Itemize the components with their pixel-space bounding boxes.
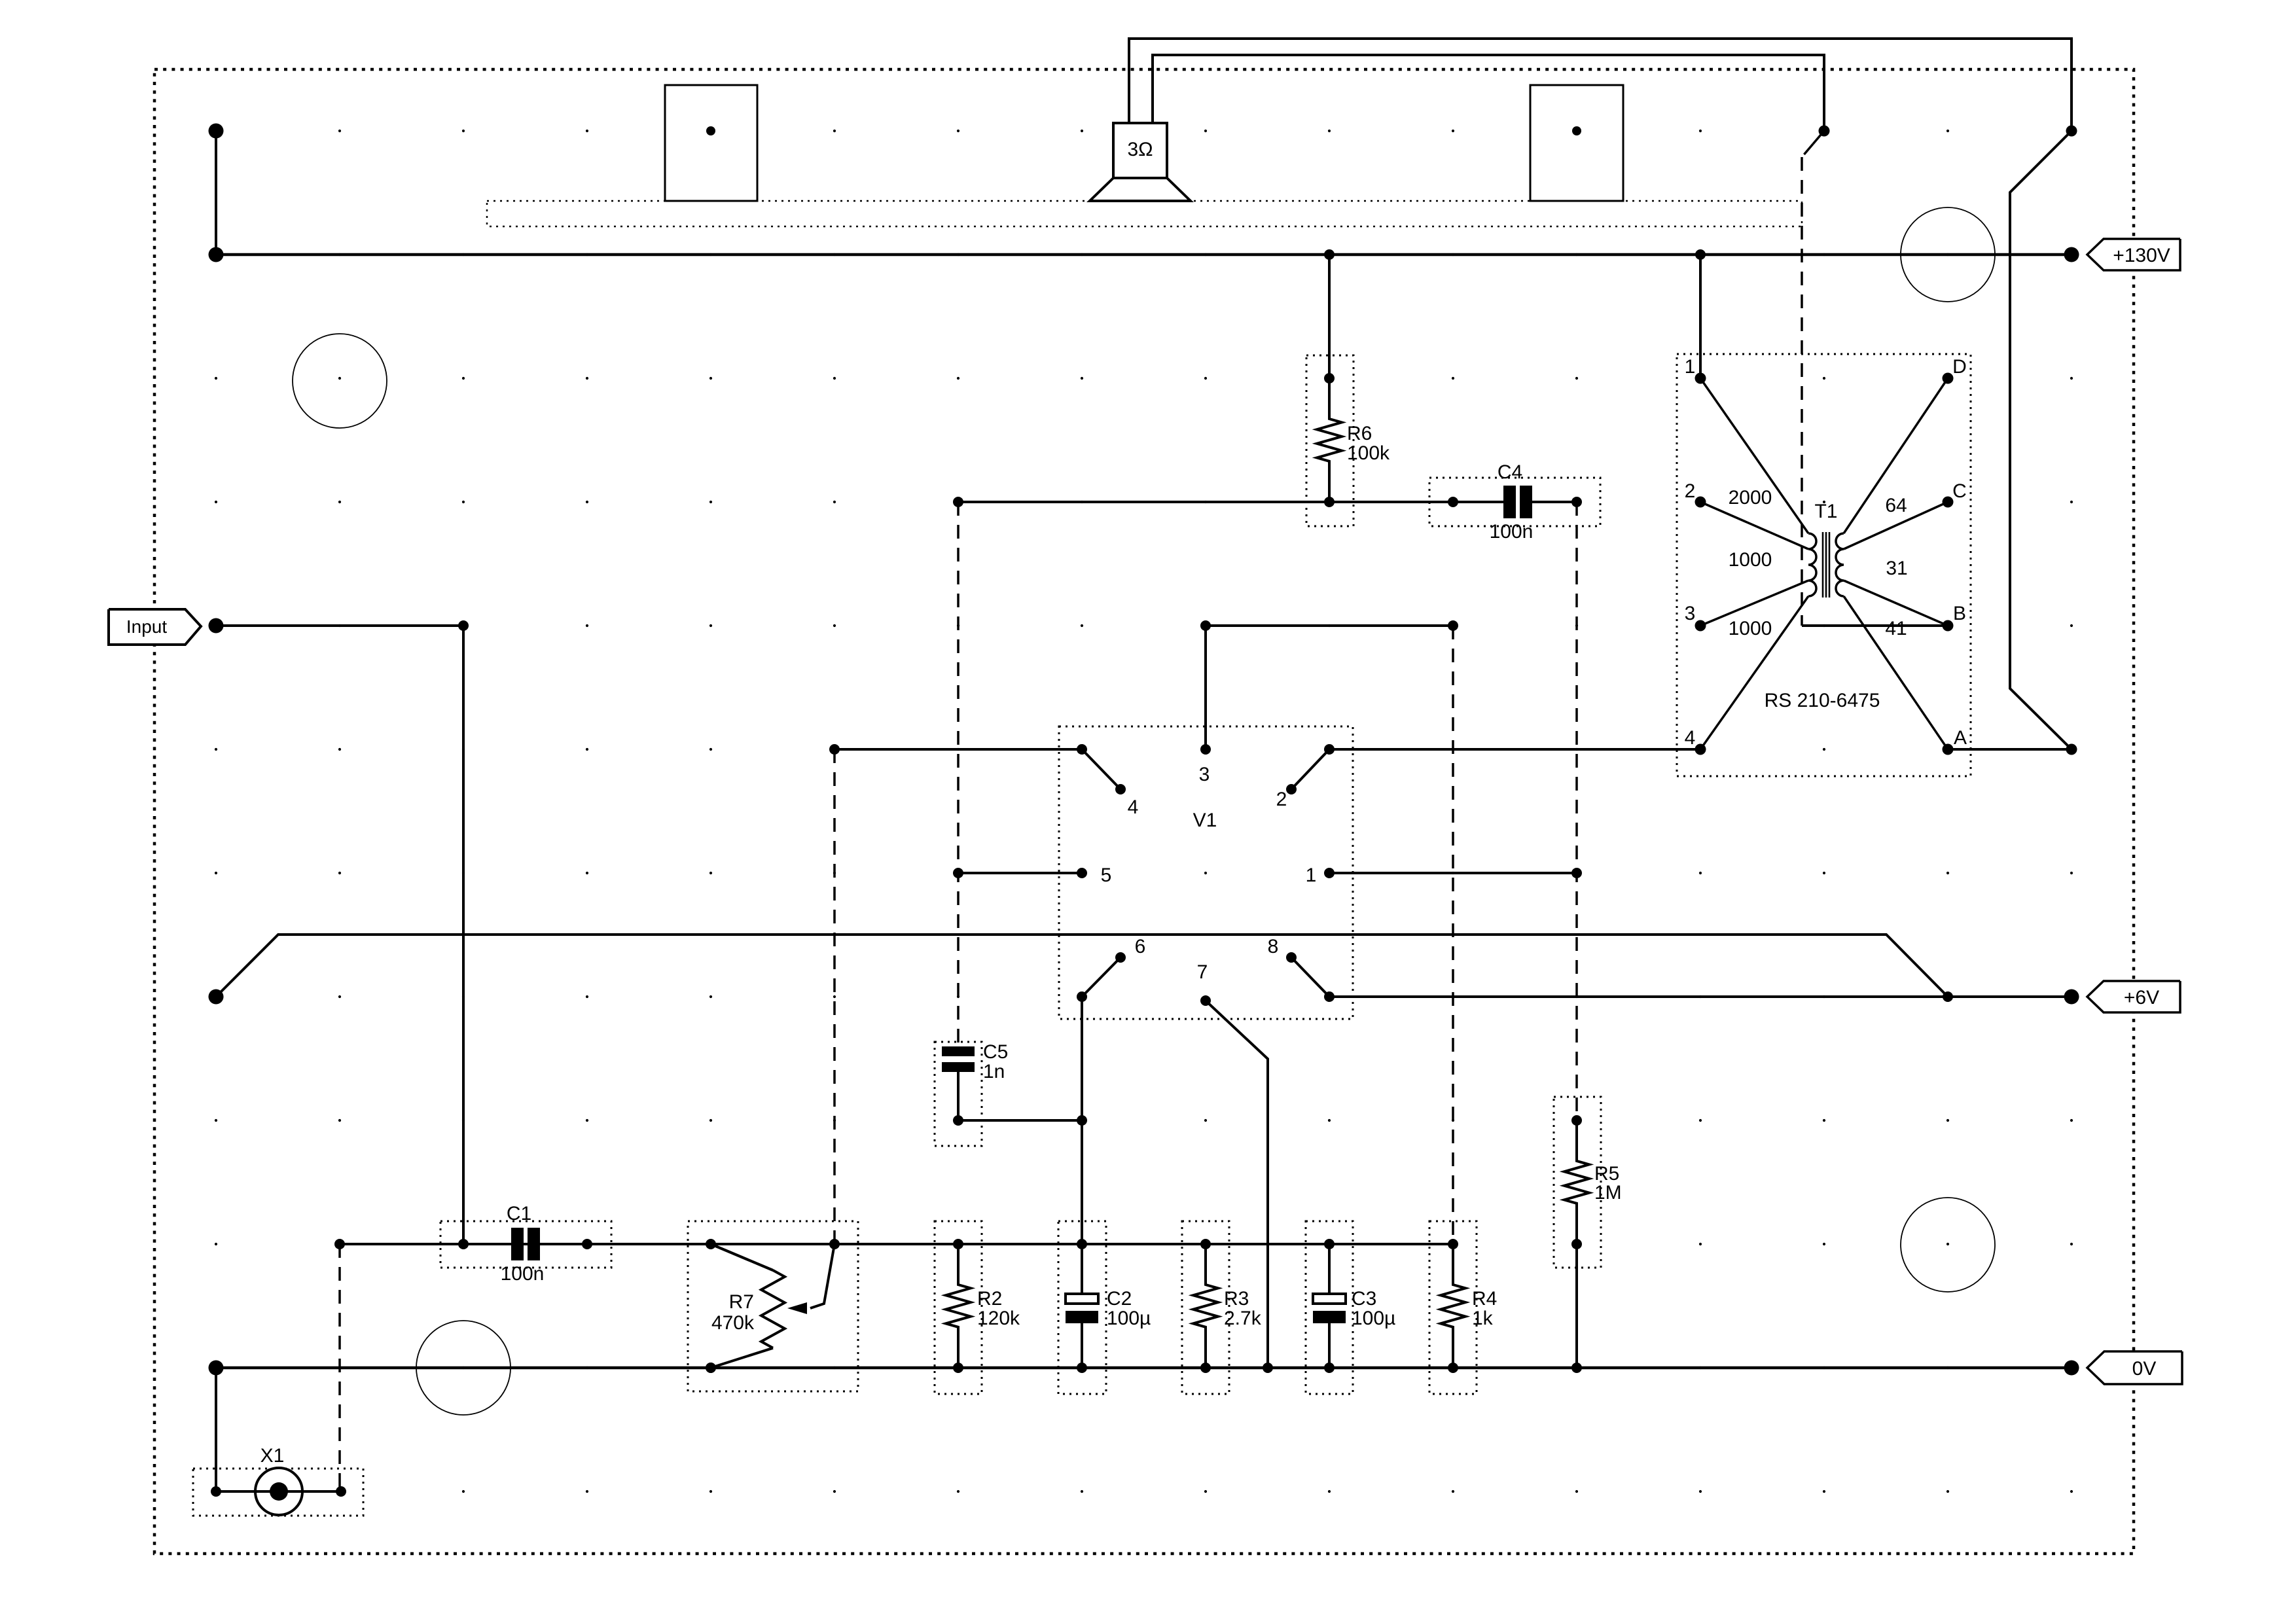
node bus left end (334, 1239, 345, 1249)
V1 pin 3 (1199, 744, 1211, 785)
svg-text:7: 7 (1197, 961, 1208, 983)
wire C5 to cathode line (958, 1119, 1082, 1122)
node speaker-left / right loop (2066, 126, 2077, 137)
wire grid bus (340, 1243, 1453, 1245)
wire to T1 pin B (1802, 624, 1948, 627)
dashed wire grid tap to R7 wiper (833, 749, 836, 1244)
svg-text:+130V: +130V (2113, 245, 2170, 266)
transformer T1 RS 210-6475 (1677, 354, 1971, 776)
svg-text:5: 5 (1101, 865, 1112, 886)
svg-text:2.7k: 2.7k (1224, 1308, 1262, 1329)
resistor R4 1k (1429, 1221, 1497, 1394)
node V1 pin1 to dashed (1571, 868, 1582, 878)
svg-text:1k: 1k (1472, 1308, 1494, 1329)
dashed wire C1 to X1 (338, 1244, 341, 1491)
node plate corner left (1200, 620, 1211, 631)
flag Input (109, 609, 201, 645)
wire T1 pin A to right loop (1948, 748, 2072, 751)
terminal dot +6V right (2064, 990, 2079, 1005)
terminal dot +130V left (209, 247, 224, 262)
svg-text:R7: R7 (729, 1291, 754, 1313)
capacitor C1 100n (440, 1203, 611, 1285)
wire V1 pin6 cathode (1081, 997, 1083, 1244)
capacitor C2 100µ (1058, 1221, 1151, 1394)
svg-text:8: 8 (1268, 936, 1279, 957)
svg-text:1M: 1M (1594, 1182, 1622, 1204)
svg-text:C1: C1 (507, 1203, 531, 1224)
node T1 pin1 rail (1695, 249, 1706, 260)
chassis bar (dotted outline) (487, 201, 1802, 226)
V1 pin 2 (1276, 744, 1335, 810)
svg-text:R3: R3 (1224, 1288, 1249, 1310)
mounting hole (bottom right) (1901, 1198, 1995, 1292)
svg-text:Input: Input (126, 616, 167, 637)
svg-text:A: A (1954, 727, 1967, 749)
wire V1 pin1 to dashed node (1329, 872, 1577, 874)
node pin5 to dashed (953, 868, 963, 878)
V1 pin 5 (1077, 865, 1111, 886)
svg-text:R4: R4 (1472, 1288, 1497, 1310)
resistor R6 100k (1306, 255, 1390, 526)
svg-text:4: 4 (1128, 796, 1139, 818)
V1 pin 6 (1077, 936, 1145, 1002)
svg-text:C: C (1952, 480, 1967, 502)
wire speaker left terminal to right edge (1129, 39, 2072, 131)
svg-text:RS 210-6475: RS 210-6475 (1765, 690, 1880, 711)
flag 0V (2087, 1351, 2182, 1384)
svg-text:C3: C3 (1352, 1288, 1376, 1310)
node speaker-right (1819, 126, 1830, 137)
svg-text:+6V: +6V (2124, 987, 2159, 1008)
wire V1 plate link (1206, 626, 1453, 749)
V1 pin 7 (1197, 961, 1211, 1006)
capacitor C5 1n (935, 1041, 1008, 1146)
node dashed/wire junction (953, 497, 963, 507)
wire V1 pin2 to T1 pin4 (1329, 748, 1700, 751)
svg-text:2: 2 (1685, 480, 1696, 502)
valve V1 (dotted outline) (1059, 726, 1353, 1019)
svg-text:C4: C4 (1498, 461, 1522, 483)
svg-text:1: 1 (1685, 356, 1696, 378)
svg-text:R6: R6 (1347, 423, 1372, 444)
svg-text:470k: 470k (711, 1312, 755, 1334)
svg-text:X1: X1 (260, 1445, 285, 1467)
mounting hole (bottom left) (416, 1321, 511, 1415)
wire V1 pin7 to 0V (1206, 1001, 1268, 1368)
wire +130V rail (216, 253, 2072, 257)
terminal dot top-left (209, 124, 224, 139)
speaker LS1 3Ω (1090, 123, 1191, 201)
wire top-left stub (215, 131, 217, 255)
svg-text:T1: T1 (1814, 501, 1837, 522)
svg-text:C5: C5 (983, 1041, 1008, 1063)
svg-text:1000: 1000 (1729, 549, 1772, 571)
wire Input down to C1 (462, 626, 465, 1244)
node +6V junction (1943, 991, 1953, 1002)
svg-text:B: B (1953, 603, 1966, 624)
node R5 ground (1571, 1363, 1582, 1373)
node T1 pin A wire (2066, 744, 2077, 755)
wire +130V to T1 pin 1 (1699, 255, 1702, 378)
svg-text:C2: C2 (1107, 1288, 1132, 1310)
terminal dot +6V left (209, 990, 224, 1005)
node Input corner (458, 620, 469, 631)
wire +6V to flag (1948, 995, 2072, 998)
connector X1 (193, 1445, 363, 1516)
mounting hole (top right) (1901, 207, 1995, 302)
svg-text:100µ: 100µ (1107, 1308, 1151, 1329)
svg-text:100k: 100k (1347, 442, 1390, 464)
resistor R5 1M (1554, 1097, 1622, 1368)
wire V1 pin5 stub (958, 872, 1082, 874)
V1 pin 1 (1306, 865, 1335, 886)
svg-text:2000: 2000 (1729, 487, 1772, 508)
wire grid tap to V1 pin4 (834, 748, 1082, 751)
svg-text:V1: V1 (1193, 810, 1217, 831)
svg-text:64: 64 (1885, 495, 1907, 516)
flag +6V (2087, 981, 2180, 1012)
svg-text:1000: 1000 (1729, 618, 1772, 639)
terminal dot 0V left (209, 1361, 224, 1376)
resistor R3 2.7k (1182, 1221, 1262, 1394)
wire 0V to X1 (215, 1368, 217, 1491)
mounting hole (top left) (293, 334, 387, 428)
wire +6V run (216, 935, 1948, 997)
node R6 top rail (1324, 249, 1335, 260)
node R7 bottom (706, 1363, 716, 1373)
terminal dot Input (209, 618, 224, 633)
wire grid node to C4 (958, 501, 1453, 503)
terminal dot +130V right (2064, 247, 2079, 262)
wire 0V rail (216, 1366, 2072, 1370)
node cathode line (1077, 1115, 1087, 1126)
wire V1 pin8 to +6V node (1329, 995, 1948, 998)
V1 pin 4 (1077, 744, 1138, 818)
svg-text:6: 6 (1135, 936, 1146, 957)
svg-text:100n: 100n (501, 1263, 545, 1285)
svg-text:1n: 1n (983, 1061, 1005, 1082)
node plate corner right (1448, 620, 1458, 631)
capacitor C3 100µ (1306, 1221, 1395, 1394)
svg-text:3Ω: 3Ω (1127, 139, 1153, 160)
wire speaker right terminal (1153, 55, 1824, 131)
flag +130V (2087, 239, 2180, 270)
svg-text:0V: 0V (2132, 1358, 2157, 1380)
svg-text:D: D (1952, 356, 1967, 378)
svg-text:31: 31 (1886, 558, 1907, 579)
resistor R2 120k (935, 1221, 1020, 1394)
svg-text:100n: 100n (1490, 521, 1534, 543)
V1 pin 8 (1268, 936, 1335, 1002)
dashed wire C4-node to C5 (957, 502, 960, 1046)
terminal block (right) (1530, 85, 1623, 201)
svg-text:4: 4 (1685, 727, 1696, 749)
svg-text:R2: R2 (977, 1288, 1002, 1310)
potentiometer R7 470k (688, 1221, 858, 1391)
svg-text:120k: 120k (977, 1308, 1020, 1329)
wire Input (216, 624, 463, 627)
svg-text:3: 3 (1199, 764, 1210, 785)
capacitor C4 100n (1429, 461, 1600, 543)
terminal block (left) (665, 85, 757, 201)
svg-text:41: 41 (1885, 618, 1907, 639)
dashed link speaker-right to T1 tap B (1802, 131, 1824, 626)
node pin7 ground (1263, 1363, 1273, 1373)
dashed wire V1 plate node to R4 (1452, 626, 1454, 1244)
svg-text:3: 3 (1685, 603, 1696, 624)
node grid tap (829, 744, 840, 755)
dashed wire C4 to R5 (1575, 502, 1578, 1120)
svg-text:100µ: 100µ (1352, 1308, 1395, 1329)
svg-text:2: 2 (1276, 789, 1287, 810)
terminal dot 0V right (2064, 1361, 2079, 1376)
svg-text:1: 1 (1306, 865, 1317, 886)
wire right-edge loop down (2010, 131, 2072, 749)
